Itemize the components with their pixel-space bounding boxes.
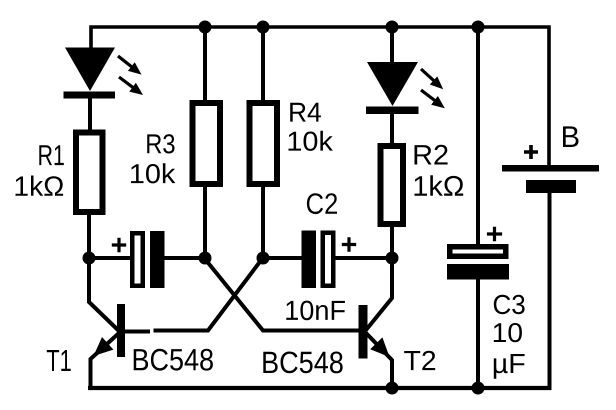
resistor R4 [250, 103, 278, 184]
wire top rail to LED2 [390, 26, 394, 64]
label R4 [290, 103, 321, 122]
label R3 [147, 134, 174, 153]
wire T1 collector [89, 258, 119, 331]
node top rail R4 [257, 21, 270, 34]
label R1 [39, 145, 64, 165]
node R1 C1 T1 collector [83, 252, 96, 265]
wire node to C2 left plate [263, 256, 303, 260]
wire R1 bottom to node [87, 213, 91, 260]
wire top rail to R3 [203, 26, 207, 102]
resistor R3 [193, 103, 221, 184]
label R3 value 10k [131, 163, 175, 183]
node R4 C2 T1 base [257, 252, 270, 265]
LED D1 light arrow 1 [115, 52, 145, 79]
LED D2 light arrow 2 [418, 86, 449, 113]
capacitor C1 positive plate [132, 233, 143, 286]
label C3 plus [487, 227, 502, 241]
LED D2 [366, 62, 419, 114]
wire T2 emitter lead [366, 333, 392, 388]
node R2 C2 T2 collector [386, 252, 399, 265]
label C2 value 10nF [286, 301, 345, 321]
transistor T1 base bar [117, 304, 125, 357]
wire R2 bottom to node [390, 224, 394, 260]
capacitor C1 negative plate [150, 231, 165, 288]
transistor T2 base bar [359, 305, 368, 359]
wire top rail [91, 27, 549, 166]
LED D2 light arrow 1 [417, 65, 447, 93]
wire LED1 cathode to R1 [88, 96, 92, 132]
capacitor C2 positive plate [323, 233, 334, 286]
label C2 [307, 193, 337, 214]
label C1 plus [112, 238, 126, 252]
wire T1 base to R4 node [123, 259, 262, 332]
transistor T1 emitter arrow [94, 337, 114, 356]
wire top rail to C3 [476, 26, 480, 246]
node top rail LED2 [386, 21, 399, 34]
transistor T2 emitter arrow [370, 337, 389, 357]
wire T1 emitter lead [91, 333, 120, 388]
wire C2 right plate to node [334, 256, 392, 260]
label T1 [47, 350, 71, 371]
label R2 [415, 145, 448, 165]
capacitor C3 negative plate [447, 264, 509, 280]
resistor R2 [381, 146, 404, 224]
node bottom rail T2 emitter [386, 382, 399, 395]
wire C1 right plate to node [164, 256, 206, 260]
node R3 C1 T2 base [199, 252, 212, 265]
node top rail C3 [472, 21, 485, 34]
battery B negative plate [526, 180, 576, 193]
capacitor C2 negative plate [302, 231, 317, 289]
label R2 value 1kOhm [415, 175, 464, 196]
LED D1 [64, 48, 116, 99]
label C3 [494, 295, 525, 314]
wire battery negative to bottom rail [548, 191, 552, 388]
battery B positive plate [502, 165, 599, 172]
wire node to C1 left plate [89, 256, 132, 260]
label R4 value 10k [289, 131, 333, 151]
label T2 type BC548 [263, 352, 342, 374]
wire R3 bottom to node [203, 185, 207, 260]
label battery plus [524, 145, 538, 159]
resistor R1 [76, 133, 103, 213]
node top rail R3 [199, 21, 212, 34]
label T2 [404, 351, 435, 370]
LED D1 light arrow 2 [116, 73, 147, 100]
wire bottom rail [88, 386, 552, 390]
capacitor C3 positive plate [450, 247, 506, 257]
label B [563, 126, 579, 147]
label C3 value 10 [494, 323, 522, 342]
wire C3 bottom to bottom rail [476, 278, 480, 388]
label R1 value 1kOhm [16, 176, 64, 196]
wire LED2 cathode to R2 [390, 112, 394, 146]
node bottom rail C3 [472, 382, 485, 395]
label C2 plus [342, 237, 356, 251]
wire top rail to R4 [261, 26, 265, 102]
label C3 value uF [494, 354, 525, 379]
label T1 type BC548 [134, 349, 213, 371]
wire R4 bottom to node [261, 185, 265, 260]
wire T2 collector [366, 258, 392, 330]
wire T2 base to R3 node [205, 259, 361, 331]
